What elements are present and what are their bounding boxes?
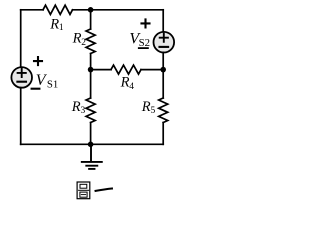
label R4 [120, 75, 135, 92]
wire node B to R3 [90, 70, 92, 98]
resistor R4 [111, 65, 141, 74]
wire node B to R4 [91, 69, 111, 71]
svg-text:R: R [49, 16, 59, 32]
svg-text:1: 1 [59, 23, 64, 33]
svg-text:S2: S2 [139, 37, 150, 49]
svg-text:4: 4 [129, 82, 134, 92]
label R2 [72, 31, 87, 48]
wire R2 to node B [90, 54, 92, 70]
label R5 [141, 99, 156, 116]
wire bottom [21, 143, 164, 145]
label VS2 [129, 30, 150, 49]
label R3 [71, 99, 86, 116]
label VS2 polarity minus [139, 47, 148, 49]
voltage source VS1 [11, 67, 32, 88]
svg-text:R: R [71, 99, 81, 115]
label VS1 [36, 72, 59, 90]
wire R3 to ground node [90, 123, 92, 145]
svg-text:R: R [141, 99, 151, 115]
label VS2 polarity plus [142, 19, 150, 27]
junction ground node [88, 142, 94, 148]
wire node A to R2 [90, 10, 92, 29]
svg-text:R: R [72, 31, 82, 47]
wire node C to R5 [162, 70, 164, 98]
resistor R5 [159, 98, 168, 123]
wire left rail upper [20, 10, 22, 67]
label R1 [49, 16, 64, 33]
svg-text:3: 3 [81, 106, 86, 116]
label VS1 polarity plus [34, 57, 42, 65]
ground [82, 144, 102, 169]
wire R1 to node A [73, 9, 91, 11]
wire VS2 to node C [162, 52, 164, 69]
svg-text:S1: S1 [47, 78, 58, 90]
resistor R2 [86, 29, 95, 54]
wire left rail lower [20, 88, 22, 145]
svg-text:2: 2 [81, 38, 86, 48]
wire R5 to bottom-right corner [162, 123, 164, 145]
wire node A to top-right corner [91, 9, 164, 11]
junction node C [160, 67, 166, 73]
svg-text:5: 5 [151, 106, 156, 116]
label VS1 polarity minus [32, 88, 40, 90]
voltage source VS2 [154, 32, 175, 53]
wire right rail top [162, 10, 164, 32]
wire top: left corner to R1 [21, 9, 43, 11]
resistor R1 [43, 5, 73, 14]
caption 圖一 (figure one) [77, 182, 112, 199]
resistor R3 [86, 98, 95, 123]
svg-text:R: R [120, 75, 130, 91]
wire R4 to node C [141, 69, 163, 71]
junction node B [88, 67, 94, 73]
junction node A [88, 7, 94, 13]
